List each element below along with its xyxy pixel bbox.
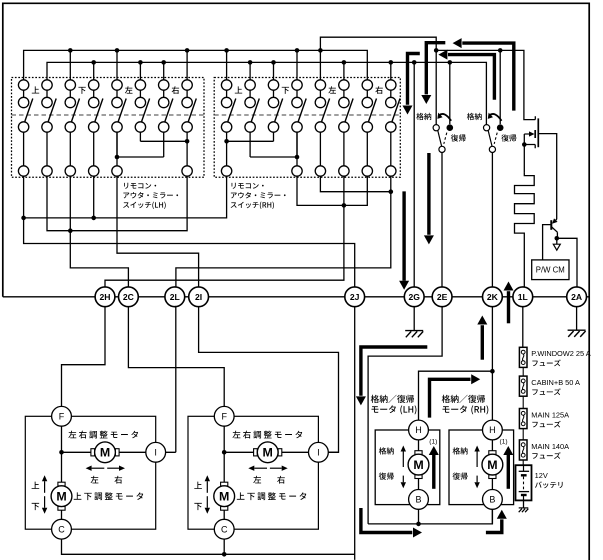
wire lead RH col6 to bus2 (343, 62, 345, 79)
terminal H (LH) (409, 420, 429, 440)
junction dot F riser (RH adjust) (222, 450, 227, 455)
switch contact column RH-2 (上 side) (245, 80, 259, 157)
label 12V バッテリ (535, 471, 563, 488)
transistor Q1 gate plate (534, 130, 536, 138)
svg-text:P.WINDOW2 25 A: P.WINDOW2 25 A (531, 349, 590, 358)
retract selector switch RH: pivot contact (497, 124, 504, 131)
label 左 (LH switch) (125, 86, 133, 93)
wire fuse link 1 (522, 367, 524, 376)
svg-text:H: H (415, 425, 422, 435)
label リモコン・アウタ・ミラー・スイッチ(LH) (123, 183, 178, 209)
switch contact column RH-8 (右 side) (386, 80, 400, 176)
junction dot Q1 left lead (522, 142, 527, 147)
junction dot Q2 emitter node (555, 236, 560, 241)
wire LH col5 r3 stub (116, 132, 118, 157)
ground symbol connector 2A (576, 307, 578, 331)
svg-text:2G: 2G (408, 292, 420, 302)
fuse F3 MAIN 125A (519, 409, 527, 429)
wire RH col4 to RH col7 (y205) (297, 176, 367, 205)
switch contact column LH-6 (左 side) (135, 80, 149, 142)
wire line y218 LH col1 / LH col4 / RH col1 (24, 176, 227, 218)
switch contact column LH-3 (下 side) (65, 80, 79, 176)
svg-text:C: C (58, 524, 65, 534)
retract selector switch LH: pivot contact (447, 124, 454, 131)
svg-text:MAIN 125A: MAIN 125A (531, 410, 569, 419)
switch contact column RH-5 (左 side) (315, 80, 329, 176)
wire M2 to C (LH adjust) (61, 507, 63, 520)
wire bus 1 (upper rail from LH col1 to RH col7) (24, 50, 368, 79)
wire C bus (bottom) (62, 538, 355, 554)
wire H-M-B links (RH) (491, 439, 493, 524)
arrows 上 下 (LH adjust) (44, 481, 46, 493)
svg-text:2A: 2A (571, 292, 582, 302)
wire connector 2E to B bus riser (368, 307, 442, 524)
motor M 格納/復帰 (RH) (489, 451, 496, 455)
fuse F1 P.WINDOW2 25 A (519, 347, 527, 367)
junction dot lineA at LH col4 (91, 216, 96, 221)
motor M 格納/復帰 (LH) (415, 451, 422, 455)
flow arrow H (east toward RH H riser) (430, 379, 471, 417)
wire H feed line (LH H riser, junction, fuse tap) (419, 371, 493, 421)
svg-text:2J: 2J (350, 292, 360, 302)
wire lead RH col1 to bus1 (226, 50, 228, 79)
svg-text:2C: 2C (123, 292, 134, 302)
svg-text:I: I (317, 448, 320, 458)
label 上下調整モータ (LH adjust) (74, 492, 144, 500)
wire lead LH col8 to bus1 (186, 50, 188, 79)
label 復帰 (switch LH) (451, 134, 466, 141)
flow arrow B (second westward) (448, 55, 494, 100)
svg-text:2L: 2L (170, 292, 180, 302)
svg-text:I: I (154, 448, 157, 458)
wire lead RH col2 to bus2 (249, 62, 251, 79)
label 下 (RH switch) (282, 87, 289, 94)
switch contact column LH-5 (左 side) (112, 80, 126, 176)
dashed box remote outer mirror switch RH (214, 78, 400, 178)
wire connector 1L down to fuse chain (522, 307, 524, 348)
wire Q1 output to BJT collector (538, 134, 556, 219)
wire feed line bus1 extension to MOSFET drain (436, 50, 535, 119)
label 下 (LH switch) (78, 87, 85, 94)
retract selector switch RH: blade (488, 131, 492, 147)
label 復帰 with down arrow (RH) (453, 473, 468, 480)
wire connector 2K down through H junction to motor H (RH) (491, 307, 493, 421)
transistor Q2 collector diagonal with arrow (556, 219, 557, 220)
wire lead LH col3 to bus1 (69, 50, 71, 79)
motor M1 left-right adjust (RH adjust) (254, 449, 258, 456)
arrows 左 右 (LH adjust) (92, 467, 105, 469)
wire LH col3 down to connector 2C (70, 176, 128, 287)
svg-text:2K: 2K (487, 292, 499, 302)
flow arrow M (bottom, eastward under LH retract box) (361, 508, 412, 533)
svg-text:B: B (415, 495, 421, 505)
wire B bus (bottom) (368, 509, 492, 524)
switch contact column LH-8 (右 side) (182, 80, 196, 176)
wire 復帰-RH contact down to connector 2K (491, 153, 493, 288)
fuse F2 CABIN+B 50 A (519, 376, 527, 396)
flow arrow G (2K area down-west to LH motor) (361, 347, 427, 396)
terminal H (RH) (483, 420, 503, 440)
flow arrow I (up toward connector 2K) (481, 325, 484, 360)
wire connector 2L down to I (LH adjust) (175, 306, 177, 452)
mirror adjust motor box (RH adjust) (188, 416, 318, 529)
wire LH col5 down to connector 2I (117, 176, 199, 287)
flow arrow E (down between switches and connectors) (427, 153, 430, 235)
connector 2K (483, 287, 503, 307)
wire RH col6 down to connector 2H (105, 176, 344, 287)
dashed mid-line LH switch box (12, 114, 205, 116)
junction dot LH col8 y141 (185, 139, 190, 144)
retract selector switch LH: 格納 contact (433, 125, 439, 131)
wire M2 to C (RH adjust) (223, 507, 225, 520)
label 格納 with up arrow (RH) (453, 447, 468, 454)
junction dot lineA at LH col1 (21, 216, 26, 221)
transistor Q1 (FET) channel bar (537, 118, 539, 147)
wire connector row line (3, 296, 589, 298)
svg-text:(1): (1) (429, 439, 437, 446)
svg-text:F: F (221, 412, 227, 422)
label fuse F3 (531, 410, 569, 427)
retract selector switch LH: blade (438, 131, 442, 147)
terminal B (RH) (483, 490, 503, 510)
wire lead LH col4 to bus2 (93, 62, 95, 79)
wire connector 2I route to I (RH adjust) (199, 307, 339, 453)
wire connector 2C feed to F (RH adjust) (128, 307, 224, 407)
switch contact column RH-6 (左 side) (339, 80, 353, 176)
motor M2 up-down adjust (RH adjust) (221, 482, 228, 486)
svg-text:M: M (263, 446, 273, 460)
flow arrow F (down toward connector 2G) (402, 191, 405, 280)
svg-text:C: C (221, 524, 228, 534)
flow arrow C (down left of 格納-LH riser) (426, 43, 445, 95)
label 復帰 (switch RH) (501, 134, 516, 141)
label fuse F4 (531, 442, 569, 459)
transistor Q1 lower lead (524, 145, 535, 149)
svg-text:CABIN+B 50 A: CABIN+B 50 A (531, 378, 580, 387)
connector 2L (165, 287, 185, 307)
label 右 (LH switch) (172, 86, 179, 94)
wire lead LH col6 to bus2 (139, 62, 141, 79)
transistor Q1 middle lead with arrow (524, 133, 529, 135)
retract motor box (LH) (375, 430, 440, 505)
label 格納／復帰モータ (RH) (442, 395, 485, 403)
label 上 (LH switch) (32, 86, 39, 93)
wire LH col4 drop to lineA (93, 176, 95, 218)
label 格納／復帰モータ (LH) (371, 395, 414, 403)
flow arrow D (down at far left of retract switches) (408, 54, 420, 105)
svg-text:M: M (56, 490, 66, 504)
connector 2E (432, 287, 452, 307)
label 格納 with up arrow (LH) (379, 447, 394, 454)
ground symbol battery (523, 500, 525, 508)
resistor R1 (stepped element) (515, 172, 535, 287)
switch contact column RH-4 (下 side) (292, 80, 306, 176)
retract motor box (RH) (449, 430, 514, 505)
label fuse F2 (531, 378, 580, 395)
terminal C (RH adjust) (214, 519, 234, 539)
terminal I (LH adjust) (146, 442, 166, 462)
switch contact column LH-7 (右 side) (159, 80, 173, 157)
svg-text:(1): (1) (500, 439, 508, 446)
label 格納 (switch LH) (416, 113, 431, 120)
connector 2H (95, 287, 115, 307)
svg-text:12V: 12V (535, 471, 548, 480)
wire fuse link 3 (522, 429, 524, 440)
junction dot y192 at RH col8 (389, 189, 394, 194)
wire RH col4 r3 stub (296, 132, 298, 157)
retract selector switch RH: alternate blade (dashed) (494, 133, 497, 144)
motor M2 up-down adjust (LH adjust) (58, 482, 65, 486)
svg-text:2H: 2H (100, 292, 111, 302)
switch contact column RH-7 (右 side) (362, 80, 376, 176)
retract selector switch RH: 復帰 contact (489, 146, 495, 152)
ground symbol connector 2G (413, 307, 415, 331)
switch contact column RH-1 (上 side) (221, 80, 235, 176)
wire pivot riser retract switch 2 (from feed line) (499, 50, 501, 124)
svg-text:B: B (489, 495, 495, 505)
wire RH col8 down to connector 2L (176, 176, 391, 287)
wire bus2 drop to connector 2G (413, 62, 415, 287)
wire net-A: LH col1 down, line y244 to connector 2J (24, 176, 355, 287)
wire H-M-B links (LH) (418, 439, 420, 524)
transistor Q2 base bar (550, 220, 552, 230)
connector 2J (345, 287, 365, 307)
arrows 上 下 (RH adjust) (206, 481, 208, 493)
wire lead LH col7 to bus2 (163, 62, 165, 79)
junction dots on bus 2 (91, 60, 452, 65)
arrows 左 右 (RH adjust) (254, 467, 267, 469)
motor M1 left-right adjust (LH adjust) (91, 449, 95, 456)
svg-text:2E: 2E (437, 292, 448, 302)
wire connector 2J long drop to C bus (354, 307, 356, 560)
connector 2G (404, 287, 424, 307)
wire lead RH col3 to bus2 (273, 62, 275, 79)
wire pivot riser retract switch 1 (from bus2) (449, 62, 451, 124)
label fuse F1 (531, 349, 590, 366)
switch contact column LH-4 (下 side) (89, 80, 103, 176)
transistor Q1 left vertical lead (523, 134, 525, 172)
wire line y231 LH col2 to LH col8 (47, 176, 187, 231)
junction dot y205 at RH col6 (342, 203, 347, 208)
svg-text:F: F (59, 412, 65, 422)
dashed box remote outer mirror switch LH (12, 78, 205, 178)
junction dots on bus 1 (68, 48, 503, 53)
wire connector 2H feed to F (LH adjust) (62, 307, 106, 407)
terminal B (LH) (409, 490, 429, 510)
terminal F (RH adjust) (214, 406, 234, 426)
connector 1L (513, 287, 533, 307)
wire C lead (RH adjust) (223, 538, 225, 554)
wire bus 2 (lower rail from LH col2 to retract contact 格納-RH) (47, 62, 486, 124)
svg-text:M: M (487, 458, 497, 472)
svg-text:MAIN 140A: MAIN 140A (531, 442, 569, 451)
terminal F (LH adjust) (52, 406, 72, 426)
connector 2A (567, 287, 587, 307)
junction dot B bus at LH motor (416, 522, 421, 527)
junction dot lineB at LH col3 (68, 228, 73, 233)
wire M1 horizontal leads (LH adjust) (62, 451, 176, 453)
flow arrow N (up into B of RH retract motor) (486, 519, 502, 532)
retract selector switch RH: 格納 contact (484, 125, 490, 131)
svg-text:M: M (100, 446, 110, 460)
terminal I (RH adjust) (309, 442, 329, 462)
wire F to M2 vertical (RH adjust) (223, 426, 225, 486)
wire lead RH col8 to bus2 (390, 62, 392, 79)
wire RH col5 tie to RH col8 (y192) (320, 176, 390, 192)
junction dot RH col1 y141 (224, 139, 229, 144)
label 復帰 with down arrow (LH) (379, 473, 394, 480)
switch contact column LH-1 (上 side) (18, 80, 32, 176)
wire lead LH col5 to bus1 (116, 50, 118, 79)
svg-text:1L: 1L (518, 292, 528, 302)
switch contact column LH-2 (上 side) (42, 80, 56, 176)
retract selector switch LH: 復帰 contact (439, 146, 445, 152)
junction dot C bus at RH adjust (222, 552, 227, 557)
wire Q2 emitter node to connector 2A (557, 238, 577, 287)
flow arrow A (top right, westward) (462, 43, 514, 111)
label 格納 (switch RH) (467, 113, 482, 120)
wire fuse link 2 (522, 396, 524, 408)
connector 2C (118, 287, 138, 307)
retract selector switch LH: throw arc arrow (439, 114, 451, 121)
svg-text:P/W CM: P/W CM (536, 266, 565, 275)
junction dot RH col4 y157 (295, 155, 300, 160)
svg-text:M: M (219, 490, 229, 504)
transistor Q2 base lead to P/W CM (543, 225, 552, 260)
label 上 (RH switch) (235, 86, 242, 93)
label リモコン・アウタ・ミラー・スイッチ(RH) (231, 183, 286, 209)
dashed mid-line RH switch box (214, 114, 400, 116)
switch contact column RH-3 (下 side) (268, 80, 282, 142)
flow arrow L (up inside RH retract box) (507, 455, 510, 489)
connector 2I (189, 287, 209, 307)
svg-text:2I: 2I (195, 292, 202, 302)
wire RH col5 riser to 格納-LH contact (top route) (320, 37, 436, 124)
junction dot LH col5 y157 (115, 155, 120, 160)
label 左 (RH switch) (328, 86, 336, 93)
open triangle pointer to P/W CM (556, 238, 558, 244)
junction dot F riser (LH adjust) (59, 450, 64, 455)
transistor Q2 lower diagonal and lead (551, 227, 557, 239)
label 上下調整モータ (RH adjust) (237, 492, 307, 500)
wire RH box link col1-col3 (y141) (227, 140, 274, 142)
wire LH box link col6-col8 (y141) (140, 140, 187, 142)
label 左右調整モータ (RH adjust) (233, 431, 303, 439)
label 右 (RH switch) (375, 86, 382, 94)
wire fuse link 4 (522, 460, 524, 466)
svg-text:M: M (413, 458, 423, 472)
label 左右調整モータ (LH adjust) (68, 431, 138, 439)
wire lead RH col4 to bus1 (296, 50, 298, 79)
retract selector switch RH: throw arc arrow (489, 114, 501, 121)
wire RH box link col2-col4 (y157) (250, 156, 297, 158)
wire M1 horizontal leads (RH adjust) (224, 451, 338, 453)
retract selector switch LH: alternate blade (dashed) (444, 133, 447, 144)
flow arrow K (up inside LH retract box) (432, 455, 435, 489)
battery 12V (516, 465, 532, 500)
fuse F4 MAIN 140A (519, 440, 527, 460)
wire LH box link col5-col7 (y157) (117, 156, 164, 158)
svg-text:H: H (489, 425, 496, 435)
flow arrow J (up into connector 1L) (507, 291, 510, 323)
wire 復帰-LH contact down to connector 2E (441, 153, 443, 288)
mirror adjust motor box (LH adjust) (25, 416, 155, 529)
junction dot H feed at RH riser (490, 369, 495, 374)
P/W CM control module box (532, 260, 569, 280)
wire F to M2 vertical (LH adjust) (61, 426, 63, 486)
terminal C (LH adjust) (52, 519, 72, 539)
